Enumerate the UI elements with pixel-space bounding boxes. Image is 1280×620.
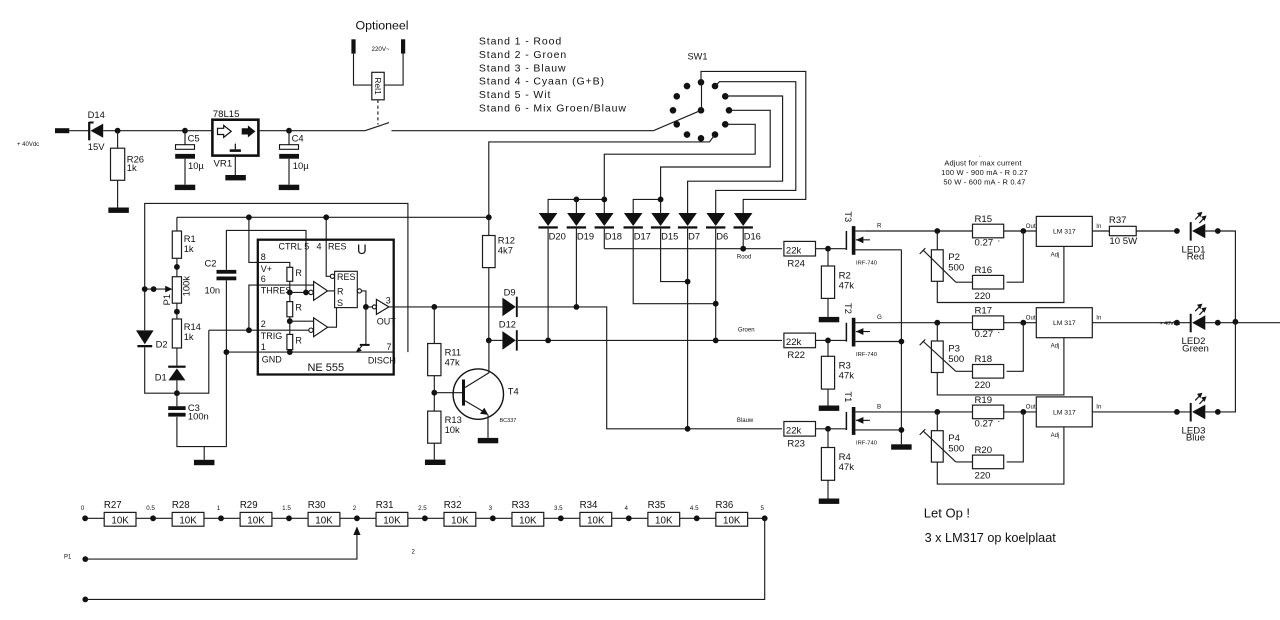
svg-text:4: 4: [317, 242, 322, 252]
node tap 2.5: [422, 515, 428, 521]
svg-text:NE 555: NE 555: [307, 362, 344, 374]
diode D15: [651, 213, 678, 242]
svg-text:10K: 10K: [723, 515, 741, 526]
wire dashed Rel1 to switch: [377, 100, 379, 125]
transistor T3 IRF-740: [828, 211, 901, 266]
node D12 anode: [486, 338, 492, 344]
svg-text:P1: P1: [64, 555, 72, 561]
wire D19 cathode to OUT wire: [575, 229, 577, 307]
wire Adj loop row 2: [937, 338, 1064, 395]
wire 22k to gate T2: [816, 339, 829, 341]
ground R26: [108, 208, 129, 213]
svg-text:T2: T2: [843, 303, 854, 314]
svg-text:CTRL: CTRL: [278, 242, 302, 252]
svg-text:47k: 47k: [839, 371, 855, 382]
diode D7: [678, 213, 700, 242]
svg-text:7: 7: [387, 342, 392, 352]
svg-text:P2: P2: [948, 252, 960, 263]
wire LED3 to +40V rail: [1205, 322, 1235, 412]
svg-text:R15: R15: [975, 214, 993, 225]
node +40Vdc input terminal: [17, 128, 69, 148]
resistor R3 47k: [821, 340, 854, 405]
svg-text:10K: 10K: [315, 515, 333, 526]
svg-text:R32: R32: [444, 500, 462, 511]
node tap 5: [762, 515, 768, 521]
ground T4: [478, 438, 499, 443]
ground C3 C2: [194, 447, 215, 466]
node tap 4: [626, 515, 632, 521]
svg-text:T4: T4: [508, 385, 519, 396]
svg-text:D6: D6: [716, 231, 728, 242]
svg-text:IRF-740: IRF-740: [856, 352, 877, 358]
svg-text:U: U: [357, 242, 367, 257]
node T4 base junction: [431, 390, 437, 396]
resistor R30 10K: [308, 500, 340, 526]
svg-text:50 W - 600 mA - R 0.47: 50 W - 600 mA - R 0.47: [943, 177, 1025, 186]
svg-text:LM 317: LM 317: [1053, 409, 1076, 416]
svg-text:Stand 2 - Groen: Stand 2 - Groen: [479, 49, 567, 61]
resistor R28 10K: [172, 500, 204, 526]
relay coil Rel1: [372, 72, 384, 100]
svg-text:D14: D14: [88, 109, 105, 120]
resistor R12 4k7: [483, 217, 516, 340]
wire ladder return bottom: [82, 518, 764, 602]
svg-text:R: R: [295, 303, 302, 313]
svg-text:10K: 10K: [179, 515, 197, 526]
wire comparator A to latch: [328, 290, 335, 292]
svg-text:R22: R22: [787, 350, 805, 361]
wire VR1 to ground: [234, 156, 236, 175]
node pin1 gnd junction: [224, 349, 230, 355]
svg-text:R17: R17: [975, 306, 993, 317]
wire D9 to Blauw branch: [518, 307, 688, 429]
svg-text:Stand 5 - Wit: Stand 5 - Wit: [479, 89, 551, 101]
node 220V terminal right: [401, 39, 405, 53]
svg-text:D9: D9: [504, 287, 516, 298]
resistor R11 47k: [428, 307, 461, 411]
capacitor C5 10u: [175, 128, 204, 185]
resistor R17 0.27: [973, 306, 1004, 341]
wire C5 to VR1: [185, 130, 212, 132]
svg-text:1: 1: [217, 505, 221, 512]
svg-text:5: 5: [760, 505, 764, 512]
svg-text:C5: C5: [188, 132, 200, 143]
svg-text:2: 2: [261, 319, 266, 329]
diode D2: [136, 330, 168, 349]
transistor T2 IRF-740: [828, 303, 901, 358]
svg-text:R28: R28: [172, 500, 190, 511]
svg-text:R37: R37: [1109, 215, 1127, 226]
svg-text:1: 1: [261, 342, 266, 352]
svg-text:BC337: BC337: [500, 418, 517, 424]
diode D12: [489, 319, 517, 351]
resistor R16 220: [956, 231, 1024, 302]
svg-text:R29: R29: [240, 500, 258, 511]
resistor R37 10 5W: [1109, 215, 1177, 247]
wire comparator B to latch: [328, 308, 337, 328]
svg-text:500: 500: [948, 263, 964, 274]
resistor R34 10K: [580, 500, 612, 526]
diode D6: [706, 213, 728, 242]
wire P3 top: [936, 323, 938, 341]
svg-text:0.27: 0.27: [975, 418, 994, 429]
regulator LM317 row 3: [1036, 397, 1092, 427]
wire MOSFET common source rail: [900, 250, 902, 444]
resistor R32 10K: [444, 500, 476, 526]
wire LM317 to LED2: [1092, 322, 1190, 324]
node tap 0.5: [150, 515, 156, 521]
svg-text:OUT: OUT: [377, 317, 397, 327]
node R12 supply junction: [486, 214, 492, 220]
svg-text:22k: 22k: [786, 337, 802, 348]
svg-text:47k: 47k: [839, 280, 855, 291]
svg-text:GND: GND: [262, 355, 283, 365]
svg-text:D2: D2: [156, 338, 168, 349]
svg-text:R33: R33: [512, 500, 530, 511]
svg-text:In: In: [1096, 316, 1101, 322]
wire D17 cathode to D6 column: [633, 229, 716, 304]
svg-text:100n: 100n: [188, 411, 209, 422]
svg-text:8: 8: [261, 252, 266, 262]
svg-text:R34: R34: [580, 500, 598, 511]
svg-text:4k7: 4k7: [498, 245, 513, 256]
svg-text:T3: T3: [843, 211, 854, 222]
svg-text:1k: 1k: [127, 162, 137, 173]
svg-text:10K: 10K: [519, 515, 537, 526]
svg-text:500: 500: [948, 444, 964, 455]
wire P4 top: [936, 412, 938, 431]
node junction R26: [115, 128, 121, 134]
svg-text:SW1: SW1: [688, 52, 708, 62]
svg-text:P3: P3: [948, 343, 960, 354]
svg-text:Groen: Groen: [738, 327, 755, 333]
svg-text:0.5: 0.5: [146, 505, 155, 512]
svg-text:47k: 47k: [839, 462, 855, 473]
svg-text:DISCH: DISCH: [368, 356, 396, 366]
svg-text:100k: 100k: [180, 276, 191, 297]
svg-text:R36: R36: [716, 500, 734, 511]
wire D16 cathode to Rood wire: [742, 229, 744, 249]
wire switch to SW1: [392, 130, 654, 132]
wire D7 cathode to Blauw wire: [687, 229, 689, 429]
svg-text:RES: RES: [328, 242, 347, 252]
ground C4: [279, 185, 300, 190]
svg-text:Adj: Adj: [1051, 252, 1060, 258]
svg-text:Stand 3 - Blauw: Stand 3 - Blauw: [479, 62, 567, 74]
svg-text:1k: 1k: [184, 331, 194, 342]
svg-text:10K: 10K: [247, 515, 265, 526]
resistor R15 0.27: [973, 214, 1004, 249]
svg-text:IRF-740: IRF-740: [856, 260, 877, 266]
wire SW1 pos4 to D15: [661, 110, 771, 213]
wire 220V left to Rel1: [354, 54, 372, 86]
wire DISCH loop top: [145, 203, 408, 352]
wire tie D17 D15 anodes: [633, 199, 660, 213]
wire pin2 TRIG: [209, 329, 309, 331]
wire VR1 to C4: [258, 130, 289, 132]
svg-text:4: 4: [625, 505, 629, 512]
text stand list: [479, 36, 627, 115]
wire OUT pin3: [389, 306, 434, 308]
svg-text:R35: R35: [648, 500, 666, 511]
wire pin4 RES: [326, 217, 330, 276]
svg-text:10K: 10K: [587, 515, 605, 526]
svg-text:D17: D17: [634, 231, 651, 242]
potentiometer P1 100k: [161, 276, 191, 319]
transistor T1 IRF-740: [828, 391, 901, 446]
wire Groen row: [518, 339, 782, 341]
svg-text:LM 317: LM 317: [1053, 320, 1076, 327]
text adjust for max current: [941, 154, 1028, 186]
svg-text:22k: 22k: [786, 426, 802, 437]
wire D20 cathode to Groen wire: [547, 229, 549, 341]
wire GND DISCH internal: [226, 351, 393, 353]
regulator LM317 row 1: [1036, 216, 1092, 246]
resistor R20 220: [956, 412, 1024, 482]
ground R4: [819, 499, 840, 504]
node +40V rail junction: [1233, 319, 1239, 325]
svg-text:Green: Green: [1182, 343, 1209, 354]
svg-text:10K: 10K: [383, 515, 401, 526]
resistor R internal middle: [287, 292, 303, 321]
resistor R22 22k: [784, 333, 816, 361]
svg-text:·: ·: [979, 154, 981, 160]
svg-text:T1: T1: [843, 391, 854, 402]
svg-text:P4: P4: [948, 433, 960, 444]
svg-text:3: 3: [489, 505, 493, 512]
svg-text:Adj: Adj: [1051, 433, 1060, 439]
capacitor C3 100n: [168, 393, 226, 446]
ground VR1: [225, 175, 246, 180]
svg-text:3: 3: [386, 295, 391, 305]
svg-text:D18: D18: [605, 231, 622, 242]
wire drain row R: [866, 230, 1036, 232]
svg-text:Out: Out: [1026, 224, 1036, 230]
svg-text:RES: RES: [337, 272, 356, 282]
svg-text:D16: D16: [744, 231, 761, 242]
wire pin5 CTRL internal: [305, 240, 307, 293]
svg-text:D15: D15: [661, 231, 678, 242]
svg-text:0: 0: [81, 505, 85, 512]
node THRES divider: [287, 290, 293, 296]
diode D19: [567, 213, 594, 242]
resistor R13 10k: [428, 411, 462, 460]
node tap 0: [82, 515, 88, 521]
diode D20: [538, 213, 565, 242]
resistor R27 10K: [104, 500, 136, 526]
ground R3: [819, 406, 840, 411]
wire SW1 pos1 to D16: [701, 71, 806, 213]
resistor R31 10K: [376, 500, 408, 526]
svg-text:D20: D20: [549, 231, 566, 242]
svg-text:R20: R20: [975, 445, 993, 456]
wire P1 wiper arrow: [142, 286, 173, 293]
wire Blauw row: [688, 428, 782, 430]
svg-text:Optioneel: Optioneel: [355, 18, 408, 32]
svg-text:220: 220: [975, 380, 991, 391]
latch SR flip-flop: [330, 271, 361, 308]
svg-text:G: G: [877, 314, 882, 321]
ground R13: [425, 460, 446, 465]
resistor R33 10K: [512, 500, 544, 526]
wire C4 to relay switch: [289, 130, 365, 132]
ground source rail: [891, 444, 912, 449]
svg-text:220: 220: [975, 291, 991, 302]
svg-text:·: ·: [459, 494, 461, 500]
diode D16: [734, 213, 761, 242]
voltage regulator VR1 78L15: [212, 109, 258, 169]
LED LED1 Red: [1182, 212, 1207, 263]
potentiometer P4 500: [920, 429, 965, 462]
svg-text:Stand 1 - Rood: Stand 1 - Rood: [479, 36, 562, 48]
svg-text:In: In: [1096, 405, 1101, 411]
resistor R29 10K: [240, 500, 272, 526]
svg-text:2: 2: [353, 505, 357, 512]
wire P2 top: [936, 231, 938, 250]
svg-text:Stand 6 - Mix Groen/Blauw: Stand 6 - Mix Groen/Blauw: [479, 102, 627, 114]
resistor R1 1k: [172, 217, 195, 276]
wire 22k to gate T3: [816, 248, 829, 250]
diode D1: [155, 366, 186, 394]
wire input to D14: [69, 130, 89, 132]
svg-text:Rel1: Rel1: [373, 77, 383, 95]
node 220V terminal left: [351, 39, 355, 53]
node tap 1.5: [286, 515, 292, 521]
resistor R23 22k: [784, 422, 816, 450]
svg-text:D12: D12: [499, 319, 516, 330]
resistor R35 10K: [648, 500, 680, 526]
svg-text:10K: 10K: [451, 515, 469, 526]
svg-text:Blauw: Blauw: [737, 418, 754, 424]
transistor discharge internal: [356, 307, 370, 352]
node V+ rail: [177, 216, 489, 218]
svg-text:C2: C2: [205, 258, 217, 269]
wire Adj loop row 1: [937, 246, 1064, 302]
svg-text:R30: R30: [308, 500, 326, 511]
wire latch to output buffer: [362, 291, 373, 307]
svg-text:R27: R27: [104, 500, 122, 511]
svg-text:IRF-740: IRF-740: [856, 440, 877, 446]
svg-text:220V~: 220V~: [372, 46, 390, 53]
resistor R24 22k: [784, 241, 816, 269]
svg-text:15V: 15V: [88, 141, 105, 152]
diode D17: [624, 213, 651, 242]
svg-text:Red: Red: [1187, 252, 1205, 263]
svg-text:VR1: VR1: [214, 158, 233, 169]
wire OUT to D9: [434, 306, 502, 308]
svg-text:D19: D19: [577, 231, 594, 242]
svg-text:10n: 10n: [205, 284, 221, 295]
svg-text:R19: R19: [975, 395, 993, 406]
wire SW1 pos5 to D18: [604, 124, 755, 213]
wire SW1 pos6 to NE555 supply: [489, 135, 715, 218]
wire drain row B: [866, 411, 1036, 413]
wire SW1 pos3 to D7: [688, 96, 783, 213]
svg-text:LM 317: LM 317: [1053, 229, 1076, 236]
svg-text:D1: D1: [155, 371, 167, 382]
resistor R36 10K: [716, 500, 748, 526]
svg-text:TRIG: TRIG: [261, 331, 283, 341]
wire 220V right to Rel1: [384, 54, 403, 86]
wire Adj loop row 3: [937, 427, 1064, 484]
svg-text:R31: R31: [376, 500, 394, 511]
wire pin6 THRES: [249, 285, 314, 330]
svg-text:R: R: [337, 286, 344, 296]
svg-text:78L15: 78L15: [213, 109, 240, 120]
svg-text:2.5: 2.5: [418, 505, 427, 512]
rotary switch SW1: [670, 52, 733, 142]
svg-text:R24: R24: [787, 258, 805, 269]
svg-text:100 W - 900 mA - R 0.27: 100 W - 900 mA - R 0.27: [941, 168, 1028, 177]
svg-text:220: 220: [975, 471, 991, 482]
diode D9: [502, 287, 516, 318]
LED LED2 Green: [1182, 304, 1209, 355]
wire drain row G: [866, 322, 1036, 324]
wire LM317 to R37: [1092, 230, 1109, 232]
op-amp comparator A: [309, 281, 328, 300]
switch Rel1 contact: [365, 123, 389, 131]
svg-text:3.5: 3.5: [554, 505, 563, 512]
zener diode D14 15V: [88, 109, 106, 152]
wire D15 cathode to D7 column: [661, 229, 688, 282]
wire pin8 V+: [249, 217, 290, 267]
wire D2 to bottom node: [145, 330, 209, 393]
svg-text:Out: Out: [1026, 405, 1036, 411]
svg-text:47k: 47k: [445, 356, 460, 367]
resistor R19 0.27: [973, 395, 1004, 430]
svg-text:5: 5: [304, 242, 309, 252]
svg-text:In: In: [1096, 224, 1101, 230]
svg-text:Let Op !: Let Op !: [924, 505, 970, 520]
node LED2 anode: [1174, 320, 1180, 326]
svg-text:6: 6: [261, 274, 266, 284]
svg-text:R16: R16: [975, 265, 993, 276]
svg-text:·: ·: [997, 235, 1000, 246]
node tap 4.5: [694, 515, 700, 521]
text NE555 pin labels: [261, 242, 397, 375]
wire ladder rail: [85, 517, 765, 519]
wire Rood row: [604, 248, 782, 250]
svg-text:10k: 10k: [445, 424, 460, 435]
svg-text:Rood: Rood: [737, 255, 751, 261]
potentiometer P2 500: [920, 248, 965, 282]
wire SW1 pos2 to D6: [715, 82, 796, 214]
svg-text:B: B: [877, 403, 881, 410]
wire LM317 to LED3: [1092, 411, 1190, 413]
svg-text:D7: D7: [688, 231, 700, 242]
svg-text:·: ·: [997, 416, 1000, 427]
potentiometer P3 500: [920, 339, 965, 372]
svg-text:V+: V+: [261, 264, 272, 274]
svg-text:R18: R18: [975, 354, 993, 365]
op-amp comparator B: [290, 318, 328, 337]
regulator LM317 row 2: [1036, 308, 1092, 338]
wire LED2 to right edge: [1205, 322, 1280, 324]
svg-text:10 5W: 10 5W: [1109, 236, 1138, 247]
wire D14 to C5: [103, 130, 185, 132]
diode D18: [595, 213, 622, 242]
IC U NE555 body: [258, 240, 394, 375]
svg-text:Adjust for max current: Adjust for max current: [944, 159, 1022, 168]
svg-text:10K: 10K: [655, 515, 673, 526]
svg-text:3 x LM317 op koelplaat: 3 x LM317 op koelplaat: [925, 531, 1057, 545]
resistor R14 1k: [172, 319, 201, 366]
resistor R26 1k: [111, 131, 145, 208]
resistor R4 47k: [821, 429, 854, 499]
svg-text:0.27: 0.27: [975, 237, 994, 248]
transistor T4 BC337: [434, 340, 518, 438]
wire D6 cathode to Groen wire: [715, 229, 717, 341]
